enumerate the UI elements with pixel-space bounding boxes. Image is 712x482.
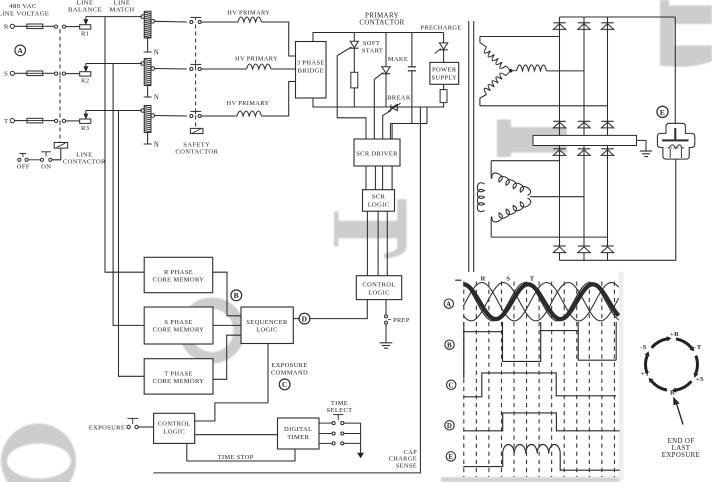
svg-text:R PHASE: R PHASE xyxy=(164,269,193,276)
node A (circled) xyxy=(15,45,26,56)
wire xyxy=(14,120,27,122)
wye center junction xyxy=(510,69,513,72)
svg-text:R: R xyxy=(481,275,486,282)
wire make anode xyxy=(385,33,387,67)
svg-text:LOGIC: LOGIC xyxy=(256,326,278,333)
switch EXPOSURE xyxy=(127,425,130,428)
svg-text:CONTACTOR: CONTACTOR xyxy=(359,18,404,26)
wire precharge anode xyxy=(443,33,445,43)
transformer secondary delta side 1 xyxy=(492,173,531,196)
svg-text:EXPOSURE: EXPOSURE xyxy=(271,362,307,369)
wire wye tap 1 xyxy=(480,36,560,38)
waveform grid (dashed) xyxy=(463,282,465,478)
svg-text:CORE MEMORY: CORE MEMORY xyxy=(153,326,205,333)
potentiometer R1 xyxy=(80,25,91,29)
wire S memory to sequencer xyxy=(213,324,241,326)
wire control-logic to sequencer (D line) xyxy=(309,300,367,319)
svg-text:LINE: LINE xyxy=(76,151,92,158)
block S PHASE CORE MEMORY xyxy=(144,307,213,344)
wire exposure command xyxy=(195,344,268,422)
svg-text:MATCH: MATCH xyxy=(109,6,134,13)
wire xyxy=(293,318,299,320)
svg-text:C: C xyxy=(449,382,454,389)
node C (circled) xyxy=(279,379,290,390)
capacitor C1 xyxy=(408,66,416,68)
tube filament xyxy=(669,145,683,149)
wire capacitor top xyxy=(411,33,413,67)
fuse FT xyxy=(27,118,43,123)
wire delta corner 1 xyxy=(490,161,493,179)
wire R memory to sequencer xyxy=(213,272,241,316)
svg-text:N: N xyxy=(154,50,159,57)
svg-text:E: E xyxy=(660,108,665,117)
waveform row label E xyxy=(446,452,455,461)
potentiometer R3 xyxy=(80,119,91,123)
waveform row label B xyxy=(445,340,454,349)
diode D11 (lower bridge bottom) xyxy=(578,245,590,247)
block CONTROL LOGIC (bottom) xyxy=(154,413,195,443)
wire xyxy=(443,103,445,107)
svg-text:E: E xyxy=(448,454,453,461)
safety contactor pole R xyxy=(190,20,193,23)
svg-text:EXPOSURE: EXPOSURE xyxy=(662,452,700,459)
wire xyxy=(45,25,55,27)
switch PREP xyxy=(385,315,388,318)
waveform A sine S xyxy=(463,283,618,321)
waveform A sine R xyxy=(463,283,618,321)
wire wiper to line-match coil xyxy=(86,16,142,18)
svg-text:SOFT: SOFT xyxy=(363,40,380,47)
wire R phase sense xyxy=(105,17,144,273)
svg-text:R: R xyxy=(670,389,675,396)
svg-text:N: N xyxy=(154,95,159,102)
svg-text:COMMAND: COMMAND xyxy=(271,369,308,376)
transformer secondary wye (upper) arm 2 xyxy=(517,65,547,71)
fuse FS xyxy=(27,71,43,76)
wire xyxy=(344,433,361,435)
ground xyxy=(380,342,393,344)
svg-text:D: D xyxy=(447,423,452,430)
gate wire soft-start xyxy=(337,47,366,139)
wire cap node xyxy=(390,123,427,125)
resistor R-precharge xyxy=(440,90,447,103)
block SCR DRIVER xyxy=(354,139,400,166)
waveform E (rectified) xyxy=(463,445,619,471)
wire HV bottom bus xyxy=(560,259,676,261)
svg-text:POWER: POWER xyxy=(432,67,457,74)
svg-text:SUPPLY: SUPPLY xyxy=(431,74,457,81)
wire xyxy=(353,48,355,72)
wire wye tap 3 xyxy=(480,105,608,107)
wire xyxy=(426,107,428,124)
x-ray tube envelope xyxy=(657,123,694,159)
wire cap charge sense (long) xyxy=(153,107,420,473)
waveform B xyxy=(464,331,616,379)
svg-text:-T: -T xyxy=(694,344,702,351)
svg-text:+T: +T xyxy=(641,371,650,378)
node B (circled) xyxy=(231,290,242,301)
line match autotransformer S xyxy=(144,59,151,86)
svg-text:TIME STOP: TIME STOP xyxy=(218,454,254,461)
svg-text:480 VAC: 480 VAC xyxy=(9,3,36,10)
wire to coil xyxy=(52,148,61,160)
ground (HV midpoint) xyxy=(640,150,652,152)
diode D5 (upper bridge bottom) xyxy=(578,120,590,122)
svg-text:CONTACTOR: CONTACTOR xyxy=(175,149,218,156)
wire T to bridge xyxy=(262,82,296,117)
wire delta corner 3 xyxy=(490,217,493,238)
diode D12 (lower bridge bottom) xyxy=(601,245,613,247)
svg-text:LINE VOLTAGE: LINE VOLTAGE xyxy=(0,11,49,18)
svg-text:BRIDGE: BRIDGE xyxy=(298,68,324,75)
wire xyxy=(344,442,361,444)
diode D8 (lower bridge top) xyxy=(578,148,590,150)
switch TIME SELECT 1 xyxy=(332,422,335,425)
svg-text:BREAK: BREAK xyxy=(387,95,411,102)
wire xyxy=(28,159,40,161)
wire TIME STOP loop xyxy=(187,443,295,461)
line contactor pole S xyxy=(54,72,57,75)
wire S to bridge xyxy=(271,68,296,70)
wire bridge + output to top bus xyxy=(313,33,444,42)
svg-text:C: C xyxy=(282,380,288,389)
wire xyxy=(374,166,376,190)
resistor R-soft-start xyxy=(351,72,358,88)
rotation arc 6 xyxy=(652,339,667,348)
waveform row label C xyxy=(447,380,456,389)
wire xyxy=(385,74,387,107)
wire leg 2 to bottom bus xyxy=(583,253,585,261)
svg-text:CONTROL: CONTROL xyxy=(362,281,395,288)
switch TIME SELECT 3 xyxy=(332,442,335,445)
line match autotransformer T xyxy=(144,106,151,133)
thyristor PRECHARGE xyxy=(439,43,447,49)
tube anode xyxy=(674,128,676,139)
wire bridge leg 1 (lower) xyxy=(559,146,561,247)
wire delta tap 3 xyxy=(491,236,607,238)
wire xyxy=(45,120,55,122)
wire xyxy=(155,68,187,71)
svg-text:BALANCE: BALANCE xyxy=(68,6,102,13)
pushbutton bar time-select xyxy=(333,414,343,416)
svg-text:T: T xyxy=(530,275,535,282)
wire xyxy=(319,442,332,444)
wire xyxy=(66,26,80,28)
svg-text:A: A xyxy=(17,47,23,55)
wire xyxy=(201,21,238,23)
waveform A bold sine xyxy=(463,284,618,319)
wire T phase sense xyxy=(119,111,145,377)
diode D10 (lower bridge bottom) xyxy=(553,245,565,247)
wire xyxy=(385,324,387,343)
safety contactor pole S xyxy=(190,67,193,70)
line contactor coil xyxy=(54,143,67,149)
waveform D xyxy=(463,413,619,431)
rotation arc 4 xyxy=(652,381,667,390)
wire xyxy=(319,422,332,424)
svg-text:START: START xyxy=(362,47,383,54)
svg-text:R: R xyxy=(4,24,9,31)
transformer secondary wye (upper) arm 1 xyxy=(484,47,506,68)
rotation arc 5 xyxy=(646,356,648,374)
wire continuation rail 2 xyxy=(473,21,475,272)
waveform row label D xyxy=(445,421,454,430)
diode D6 (upper bridge bottom) xyxy=(601,120,613,122)
wire bridge leg 2 (upper) xyxy=(583,17,585,135)
svg-text:CORE MEMORY: CORE MEMORY xyxy=(153,276,205,283)
transformer secondary delta side 2 xyxy=(477,183,484,212)
thyristor BREAK xyxy=(392,104,398,110)
wire xyxy=(155,115,187,118)
svg-text:DIGITAL: DIGITAL xyxy=(284,426,312,433)
potentiometer R2 xyxy=(80,72,91,76)
line contactor pole T xyxy=(54,119,57,122)
block DIGITAL TIMER xyxy=(278,418,320,449)
rotation arc 1 xyxy=(676,339,691,348)
wire xyxy=(443,50,445,63)
svg-text:3 PHASE: 3 PHASE xyxy=(297,59,325,66)
svg-text:R3: R3 xyxy=(81,125,90,132)
svg-text:B: B xyxy=(234,291,239,300)
block SEQUENCER LOGIC xyxy=(241,307,293,344)
wire delta tap 2 xyxy=(530,196,584,198)
wire xyxy=(319,433,332,435)
thyristor MAKE xyxy=(382,67,390,73)
pushbutton ON xyxy=(40,158,43,161)
waveform A sine T xyxy=(463,283,618,321)
pushbutton OFF xyxy=(18,158,21,161)
svg-text:A: A xyxy=(446,301,451,308)
inductor HV primary R xyxy=(238,17,262,22)
waveform B edge stubs xyxy=(502,322,504,332)
gate wire break xyxy=(383,111,391,139)
svg-text:S: S xyxy=(506,275,510,282)
svg-text:TIME: TIME xyxy=(331,400,348,407)
wire xyxy=(14,25,27,27)
block T PHASE CORE MEMORY xyxy=(144,359,213,394)
svg-text:PREP: PREP xyxy=(393,317,410,324)
wire delta tap 1 xyxy=(491,160,559,162)
wire xyxy=(66,120,80,122)
diode D7 (lower bridge top) xyxy=(553,148,565,150)
block SCR LOGIC xyxy=(363,190,395,212)
wire bridge leg 1 (upper) xyxy=(559,17,561,135)
wire bridge - output to bottom bus xyxy=(313,98,444,107)
wire coil to neutral xyxy=(147,38,149,52)
svg-text:SAFETY: SAFETY xyxy=(183,142,210,149)
svg-text:R2: R2 xyxy=(81,78,89,85)
svg-text:HV PRIMARY: HV PRIMARY xyxy=(235,56,278,63)
svg-text:CORE MEMORY: CORE MEMORY xyxy=(153,378,205,385)
wire leg 1 to bottom bus xyxy=(559,253,561,261)
gate wire precharge xyxy=(435,49,441,54)
wire coil to neutral xyxy=(147,86,149,98)
svg-text:+S: +S xyxy=(696,376,704,383)
pointer arrow end-of-exposure xyxy=(676,403,683,425)
wire xyxy=(201,68,246,70)
wire gate lead 4 xyxy=(389,124,391,140)
wire bridge leg 2 (lower) xyxy=(583,146,585,247)
wire xyxy=(391,124,393,140)
wire xyxy=(66,73,80,75)
wire control to timer xyxy=(195,434,278,436)
svg-text:TIMER: TIMER xyxy=(287,434,309,441)
wire xyxy=(443,84,445,89)
wire xyxy=(353,88,355,107)
svg-text:CONTACTOR: CONTACTOR xyxy=(63,158,106,165)
wire xyxy=(45,72,55,74)
busbar midpoint xyxy=(533,135,637,145)
svg-text:LOGIC: LOGIC xyxy=(163,428,185,435)
waveform row label A xyxy=(444,299,453,308)
wire leg 3 to bottom bus xyxy=(607,253,609,261)
wire T memory to sequencer xyxy=(213,335,241,379)
waveform C xyxy=(464,373,616,397)
diode D4 (upper bridge bottom) xyxy=(553,120,565,122)
power supply U2 xyxy=(430,62,459,84)
transformer secondary delta side 3 xyxy=(492,198,531,222)
wire bridge leg 3 (upper) xyxy=(607,17,609,135)
wire xyxy=(386,211,388,276)
wire bridge leg 3 (lower) xyxy=(607,146,609,247)
wire capacitor bottom xyxy=(411,71,413,124)
diode D1 (upper bridge top) xyxy=(553,22,565,24)
svg-text:T: T xyxy=(4,118,8,125)
node D (circled) xyxy=(299,313,310,324)
inductor HV primary T xyxy=(237,111,262,116)
wire HV top bus xyxy=(560,16,676,18)
wire xyxy=(138,426,153,428)
svg-text:-S: -S xyxy=(640,344,647,351)
svg-text:+R: +R xyxy=(670,331,679,338)
diode D3 (upper bridge top) xyxy=(601,22,613,24)
svg-text:HV PRIMARY: HV PRIMARY xyxy=(227,10,270,17)
wire soft-start anode xyxy=(353,33,355,42)
diode D9 (lower bridge top) xyxy=(601,148,613,150)
wire wye tap 2 xyxy=(547,70,585,72)
svg-text:T PHASE: T PHASE xyxy=(164,370,193,377)
wire xyxy=(382,166,384,190)
thyristor SOFT START xyxy=(350,41,358,47)
svg-text:SENSE: SENSE xyxy=(396,462,417,469)
svg-text:SEQUENCER: SEQUENCER xyxy=(246,319,288,326)
wire R to bridge xyxy=(262,22,296,56)
transformer secondary wye (upper) arm 3 xyxy=(484,73,506,94)
wire anode supply xyxy=(674,17,676,123)
ground arrow xyxy=(357,453,364,458)
svg-text:D: D xyxy=(302,314,308,323)
gate wire make xyxy=(374,73,383,140)
wire prep xyxy=(385,300,387,315)
safety contactor coil xyxy=(190,128,203,133)
wire xyxy=(391,166,393,190)
wire select bus xyxy=(360,423,362,453)
node E (circled) xyxy=(657,106,668,117)
level tick xyxy=(455,279,461,281)
inductor HV primary S xyxy=(247,64,272,69)
safety contactor pole T xyxy=(190,114,193,117)
svg-text:HV PRIMARY: HV PRIMARY xyxy=(227,100,270,107)
wire xyxy=(201,115,237,117)
svg-text:SELECT: SELECT xyxy=(327,407,353,414)
fuse FR xyxy=(27,24,43,29)
rectifier U1 3 PHASE BRIDGE xyxy=(296,42,327,99)
switch TIME SELECT 2 xyxy=(332,432,335,435)
wire continuation rail 1 xyxy=(468,21,470,272)
mechanical link (dashed) xyxy=(195,25,197,129)
svg-text:LOGIC: LOGIC xyxy=(368,201,390,208)
wire cathode return xyxy=(675,159,677,260)
svg-text:PRECHARGE: PRECHARGE xyxy=(420,25,461,32)
wire wiper to line-match coil xyxy=(86,63,142,65)
svg-text:OFF: OFF xyxy=(17,163,30,170)
wire S phase sense xyxy=(113,64,144,326)
svg-text:B: B xyxy=(447,342,452,349)
svg-text:LOGIC: LOGIC xyxy=(368,289,390,296)
mechanical link (dashed) xyxy=(59,30,61,143)
svg-text:CONTROL: CONTROL xyxy=(158,420,191,427)
wire xyxy=(344,422,361,424)
svg-text:SCR: SCR xyxy=(372,193,386,200)
wire wiper to line-match coil xyxy=(86,110,142,112)
block CONTROL LOGIC (upper) xyxy=(356,276,401,300)
svg-text:N: N xyxy=(154,142,159,149)
wire xyxy=(155,20,187,23)
svg-text:R1: R1 xyxy=(81,31,89,38)
svg-text:SCR DRIVER: SCR DRIVER xyxy=(356,150,398,157)
svg-text:EXPOSURE: EXPOSURE xyxy=(89,425,125,432)
wire xyxy=(366,211,368,276)
svg-text:ON: ON xyxy=(41,163,51,170)
rotation arc 3 xyxy=(676,381,691,390)
block R PHASE CORE MEMORY xyxy=(144,257,213,292)
wire xyxy=(14,72,27,74)
diode D2 (upper bridge top) xyxy=(578,22,590,24)
svg-text:S PHASE: S PHASE xyxy=(164,319,192,326)
rotation arc 2 xyxy=(696,356,698,374)
wire to ground xyxy=(637,140,647,150)
line contactor pole R xyxy=(54,25,57,28)
wire coil to neutral xyxy=(147,133,149,145)
wire xyxy=(377,211,379,276)
wire xyxy=(365,166,367,190)
svg-text:MAKE: MAKE xyxy=(388,56,409,63)
svg-text:S: S xyxy=(4,71,8,78)
line match autotransformer R xyxy=(144,11,151,38)
